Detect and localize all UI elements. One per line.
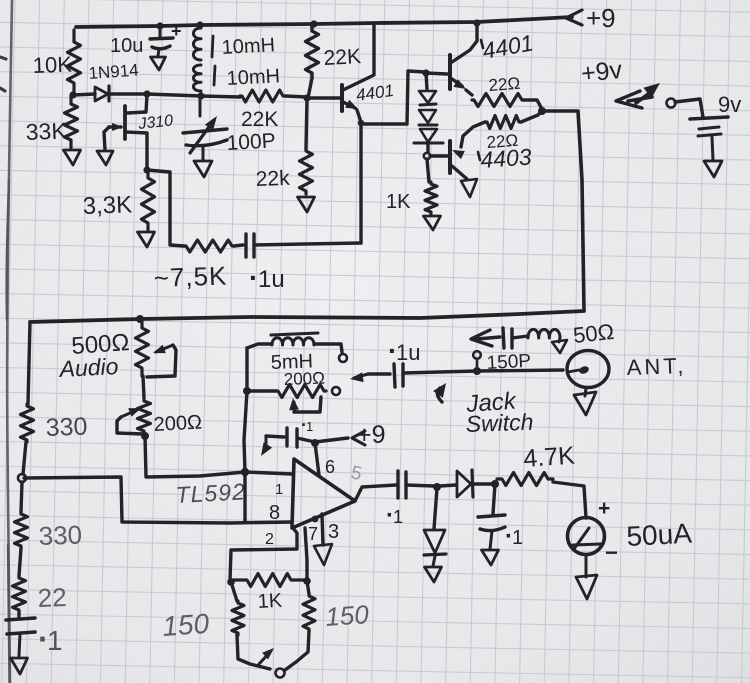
transistor Q2 4401 output NPN (426, 73, 447, 74)
svg-text:1K: 1K (257, 590, 283, 613)
inductor branch small (528, 329, 560, 338)
arrow wiper 150 (259, 651, 271, 664)
wiper arrow 200 box (294, 402, 295, 409)
branch 50 ohm arrow left (477, 337, 500, 339)
svg-text:+9: +9 (357, 421, 386, 449)
ground below shunt cap (482, 550, 499, 565)
wire antenna down (585, 388, 586, 396)
svg-text:22: 22 (37, 582, 67, 613)
svg-text:22K: 22K (241, 108, 278, 131)
label 4403 (478, 152, 480, 160)
svg-text:1N914: 1N914 (88, 61, 139, 83)
svg-text:1: 1 (47, 625, 63, 656)
node inductor tap (197, 92, 204, 99)
capacitor C .1 opamp supply (285, 428, 288, 446)
svg-text:22Ω: 22Ω (488, 74, 521, 95)
ground below J310 gate (97, 151, 113, 165)
svg-text:3,3K: 3,3K (82, 191, 132, 220)
resistor R 7.5K feedback (184, 240, 234, 252)
ground below 3.3K (138, 232, 155, 247)
svg-text:4.7K: 4.7K (522, 441, 576, 473)
switch arrow up (636, 92, 651, 103)
capacitor C .1 output (396, 471, 399, 498)
diode D1 1N914 wire (73, 94, 95, 95)
paper margin edge line (7, 0, 12, 683)
ground below 33K (64, 150, 81, 165)
wire meter to ground (585, 555, 588, 577)
battery B1 9v (690, 117, 728, 119)
switch pole terminal (667, 99, 676, 108)
resistor R 10K (68, 30, 81, 95)
svg-text:+9v: +9v (580, 56, 624, 88)
diode D1 1N914 (95, 87, 108, 101)
wire pin 7 down (305, 528, 307, 581)
svg-text:22K: 22K (323, 45, 362, 70)
svg-text:+: + (598, 497, 610, 520)
wire pot to opamp input (145, 436, 245, 477)
capacitor C branch (503, 328, 504, 348)
resistor R 22ohm lower (521, 111, 542, 122)
arrow antenna ground (574, 392, 596, 415)
wire .1u to jack (403, 370, 563, 373)
wire input to pin 1 (245, 472, 292, 474)
resistor R 1K bias (427, 159, 429, 182)
svg-text:6: 6 (325, 457, 335, 477)
resistor R 1K feedback (233, 574, 305, 587)
arrow +9 top (566, 10, 582, 25)
transistor Q1 4401 oscillator (307, 96, 340, 99)
arrow ground meter (576, 575, 597, 599)
svg-text:9v: 9v (718, 92, 741, 117)
diode bias stack D2 (426, 73, 427, 89)
wire opamp supply +9 (297, 438, 348, 442)
node base junction (303, 94, 310, 101)
svg-text:1u: 1u (258, 266, 285, 293)
wire switch to battery (675, 99, 703, 117)
arrow ground pin 3 (314, 544, 332, 565)
inductor L1 10mH (193, 28, 201, 60)
svg-text:50Ω: 50Ω (572, 319, 615, 348)
resistor R 22K right (306, 26, 319, 78)
svg-text:330: 330 (38, 520, 82, 551)
wire 5mH box left rail (244, 348, 247, 472)
svg-text:7: 7 (308, 524, 318, 544)
svg-text:+9: +9 (586, 3, 616, 33)
inductor L3 5mH (247, 344, 272, 348)
svg-text:1: 1 (393, 507, 403, 527)
node pin 7 at triangle edge (312, 516, 319, 523)
node detector 2 (491, 480, 499, 488)
ground below 1K (424, 216, 441, 230)
svg-text:150: 150 (324, 599, 370, 632)
node 1K right (303, 577, 311, 585)
potentiometer R 200 left (143, 376, 144, 398)
node driver base (422, 69, 429, 76)
ground below shunt diode (425, 567, 442, 582)
wire output node to right rail (542, 111, 584, 310)
resistor R 150 right (307, 581, 309, 594)
jack switch arrow (437, 388, 442, 402)
svg-text:Switch: Switch (465, 409, 534, 437)
capacitor C 10u polarized (159, 26, 162, 37)
node source 3.3K junction (143, 166, 150, 173)
svg-text:~7,5K: ~7,5K (153, 260, 228, 293)
terminal 150 bottom (276, 669, 285, 678)
svg-text:200Ω: 200Ω (153, 411, 202, 436)
ground below 10u (151, 57, 166, 70)
svg-text:3: 3 (328, 521, 339, 543)
svg-text:−: − (605, 540, 618, 565)
svg-text:1: 1 (306, 419, 313, 434)
svg-text:ANT,: ANT, (626, 353, 687, 380)
svg-text:150P: 150P (486, 351, 531, 374)
svg-text:TL592: TL592 (175, 478, 246, 508)
capacitor C 100p variable (199, 96, 202, 116)
node jack junction (473, 367, 481, 375)
node detector 1 (433, 483, 441, 491)
wire top +9 rail (76, 17, 572, 27)
transistor Q3 4403 output PNP (448, 141, 452, 173)
svg-text:33K: 33K (25, 118, 67, 145)
diode D5 detector series (440, 485, 456, 486)
wire stepped to pin 8 (24, 477, 292, 523)
svg-text:22k: 22k (255, 167, 290, 191)
node collector top rail (473, 19, 480, 26)
wire pin 2 (230, 528, 297, 581)
svg-text:1: 1 (512, 527, 523, 549)
svg-text:·: · (249, 262, 258, 293)
diode bias stack D3 (419, 110, 436, 123)
svg-text:+: + (171, 21, 182, 41)
svg-text:330: 330 (45, 413, 88, 442)
svg-text:10K: 10K (32, 52, 72, 78)
svg-text:1u: 1u (396, 340, 420, 365)
svg-text:4403: 4403 (480, 143, 533, 173)
capacitor C .1 shunt (493, 484, 495, 514)
svg-text:Audio: Audio (57, 353, 119, 382)
node 22K right top (310, 20, 317, 27)
resistor R 33K (65, 96, 78, 148)
svg-text:200Ω: 200Ω (283, 369, 325, 389)
node junction left (69, 91, 76, 98)
svg-text:1: 1 (275, 481, 283, 498)
potentiometer R 200 in box (276, 385, 326, 398)
wire emitter to driver node (357, 71, 425, 124)
terminal 5mH right (339, 354, 347, 362)
opamp U1 TL592 triangle (292, 459, 355, 528)
resistor R 4.7K (497, 473, 553, 486)
node open terminal left rail (18, 474, 26, 482)
potentiometer R 500 Audio (136, 320, 149, 376)
inductor L3 5mH core bar (271, 333, 318, 335)
wire opamp output (355, 485, 396, 501)
capacitor C .1u feedback (234, 245, 243, 246)
arrow of variable cap 100p (190, 120, 214, 153)
node opamp input (241, 468, 249, 476)
svg-text:2: 2 (265, 531, 274, 548)
transistor Q J310 JFET (127, 95, 147, 113)
resistor R 150 left (231, 582, 237, 601)
resistor R 22ohm upper (466, 90, 472, 95)
diode bias stack D4 (420, 129, 437, 142)
resistor R 3.3K (142, 171, 155, 230)
inductor L2 10mH (193, 65, 201, 91)
resistor R 22K horizontal (240, 90, 285, 102)
svg-text:10mH: 10mH (221, 34, 275, 59)
wire wiper loop (294, 397, 321, 412)
ground below battery (704, 161, 722, 177)
wire emitter node down to feedback (359, 124, 362, 243)
capacitor C .1u coupling (354, 374, 368, 378)
node pin6 junction (311, 439, 319, 447)
resistor R 330 lower (21, 482, 22, 512)
node bias bottom (426, 143, 429, 152)
node emitter feedback junction (358, 120, 364, 126)
node 500 pot top (136, 315, 144, 323)
svg-text:100P: 100P (226, 129, 276, 155)
antenna jack center dot (578, 365, 590, 375)
arrow down branch (559, 337, 560, 342)
svg-text:10mH: 10mH (226, 65, 280, 90)
wire left rail bottom section (28, 322, 30, 404)
svg-text:150: 150 (161, 608, 210, 642)
ground bottom left (11, 658, 28, 674)
ground below 22k lower (298, 197, 315, 212)
ground below 100p (194, 161, 212, 177)
node inductor top (196, 21, 203, 28)
antenna jack circle (567, 351, 609, 388)
node top rail cap (156, 22, 163, 29)
wire main bus to antenna (30, 311, 584, 322)
svg-text:10u: 10u (110, 35, 143, 57)
node 200 box left (243, 387, 251, 395)
node 200 pot bottom (141, 432, 149, 440)
resistor R 22k lower (306, 98, 307, 148)
wire pin 3 ground (322, 514, 323, 545)
wire oscillator mid rail (147, 94, 240, 97)
terminal 200 box right (332, 387, 340, 395)
node 1K left (227, 578, 235, 586)
meter M1 50uA (568, 518, 605, 555)
svg-text:8: 8 (269, 502, 280, 524)
arrow collector down 4403 (461, 179, 477, 197)
wire node down to pin8 rail (243, 473, 246, 521)
terminal 150P jack (473, 351, 481, 359)
svg-text:1K: 1K (386, 191, 411, 213)
switch arrow left (628, 97, 652, 101)
label 4401 output (481, 40, 483, 48)
resistor R 22 (19, 548, 21, 576)
node output node (538, 107, 546, 115)
svg-text:50uA: 50uA (626, 518, 693, 552)
arrow +9 opamp (352, 431, 365, 445)
wire feedback from source node (147, 170, 184, 246)
capacitor C .1 bottom left (17, 612, 20, 618)
diode D6 shunt (434, 488, 437, 529)
resistor R 330 upper (21, 404, 34, 442)
